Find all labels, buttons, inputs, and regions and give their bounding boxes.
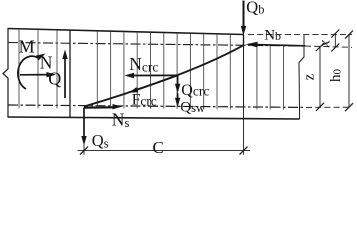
tension chord dashed extension — [306, 106, 352, 108]
force arrow Qb — [241, 1, 246, 36]
svg-text:Qcrc: Qcrc — [181, 82, 209, 99]
svg-text:Nb: Nb — [264, 28, 281, 44]
tick top of h0 — [345, 31, 353, 39]
force arrow Fcrc — [129, 76, 177, 93]
svg-text:Q: Q — [48, 69, 61, 89]
svg-text:C: C — [153, 138, 164, 157]
inclined crack — [84, 45, 244, 106]
stirrup at x=150.5 — [150, 33, 152, 109]
crack top corner connector — [243, 35, 245, 46]
Nb line dashed extension — [305, 46, 352, 47]
C dimension left extension — [83, 144, 85, 155]
force arrow Nb — [246, 42, 306, 48]
tick right of C — [240, 147, 248, 155]
stirrup at x=230.3 — [229, 35, 231, 109]
stirrup at x=137.2 — [136, 33, 138, 109]
tick bottom of z — [316, 103, 324, 111]
tick top of x — [331, 30, 339, 38]
svg-text:x: x — [317, 40, 334, 48]
stirrup at x=19 — [18, 30, 20, 109]
stirrup at x=123.9 — [123, 32, 125, 108]
tick left of C — [80, 147, 88, 155]
stirrup at x=177.1 — [176, 34, 178, 109]
svg-text:M: M — [19, 37, 35, 57]
dimension line x — [334, 34, 336, 48]
tick bottom of x — [331, 44, 339, 52]
C dimension right extension — [243, 46, 245, 155]
stirrup at x=283.5 — [283, 44, 285, 109]
force arrow Qs — [81, 108, 86, 146]
beam top edge — [8, 29, 244, 35]
stirrup at x=38 — [37, 30, 39, 108]
stirrup at x=110.6 — [110, 32, 112, 108]
stirrup at x=190.4 — [189, 34, 191, 109]
svg-text:Fcrc: Fcrc — [132, 92, 157, 109]
moment arc M — [18, 54, 46, 90]
tick bottom of h0 — [345, 103, 353, 111]
stirrup at x=243.6 — [243, 35, 245, 109]
beam left edge with break symbol — [3, 29, 8, 118]
beam right edge with break symbol — [299, 35, 304, 119]
stirrup at x=57 — [56, 31, 58, 109]
svg-text:Ncrc: Ncrc — [129, 54, 158, 74]
stirrup at x=163.8 — [163, 33, 165, 109]
C dimension line — [78, 150, 251, 152]
svg-text:Qb: Qb — [246, 0, 264, 17]
stirrup at x=217 — [216, 35, 218, 110]
section cut line — [69, 30, 71, 118]
svg-text:Qs: Qs — [92, 131, 109, 151]
stirrup at x=256.9 — [256, 44, 258, 109]
force arrow Ncrc — [125, 73, 178, 78]
compression chord line (dash-dot) — [8, 43, 304, 47]
beam bottom edge — [8, 117, 300, 119]
svg-text:Qsw: Qsw — [180, 100, 205, 116]
force arrow Ns — [84, 104, 122, 109]
stirrup at x=270.2 — [269, 44, 271, 109]
stirrup at x=97.3 — [96, 32, 98, 109]
top edge dashed extension — [248, 34, 352, 36]
tick top of z — [316, 43, 324, 51]
svg-text:Ns: Ns — [112, 110, 130, 131]
stirrup at x=203.7 — [203, 34, 205, 109]
force arrow Qsw — [175, 93, 180, 107]
force arrow Q — [62, 50, 67, 99]
svg-text:h0: h0 — [328, 69, 344, 83]
force arrow Qcrc — [175, 75, 180, 93]
force arrow N — [20, 72, 56, 77]
dimension line h0 — [348, 35, 350, 108]
svg-text:z: z — [301, 73, 317, 80]
dimension line z — [319, 47, 321, 107]
tension chord line (dash-dot) — [8, 105, 304, 107]
